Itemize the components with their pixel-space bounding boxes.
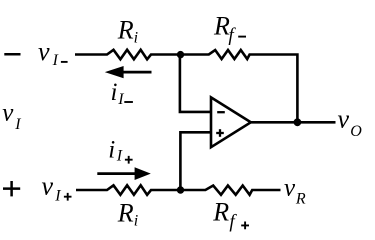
svg-text:v: v — [38, 37, 50, 66]
svg-text:v: v — [284, 174, 296, 201]
svg-text:i: i — [108, 136, 115, 163]
svg-text:i: i — [111, 79, 118, 106]
svg-text:I: I — [117, 91, 124, 108]
svg-text:i: i — [134, 29, 138, 46]
svg-text:i: i — [134, 213, 138, 230]
svg-text:v: v — [42, 171, 54, 200]
svg-text:R: R — [295, 191, 306, 208]
svg-text:I: I — [52, 52, 59, 69]
svg-text:R: R — [212, 197, 229, 226]
svg-text:v: v — [338, 105, 350, 134]
svg-text:I: I — [54, 187, 61, 204]
svg-text:I: I — [116, 148, 123, 165]
svg-text:R: R — [117, 15, 134, 44]
svg-text:v: v — [2, 100, 14, 127]
svg-text:I: I — [14, 116, 21, 133]
svg-text:O: O — [350, 123, 362, 140]
svg-text:R: R — [117, 198, 134, 227]
